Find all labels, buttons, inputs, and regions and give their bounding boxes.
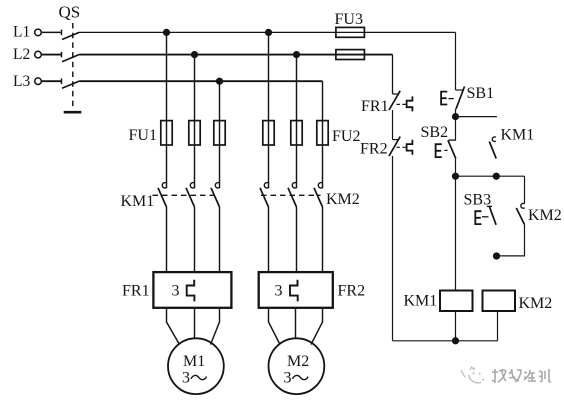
junction dot L2-B — [294, 52, 300, 58]
svg-text:QS: QS — [59, 3, 81, 22]
fuse FU2 b — [291, 121, 302, 145]
svg-text:3: 3 — [284, 370, 292, 387]
motor M1 circle — [168, 338, 224, 394]
svg-text:KM1: KM1 — [501, 127, 535, 144]
svg-text:FR1: FR1 — [361, 98, 389, 115]
thermal contact FR2 — [389, 137, 412, 156]
wire FR2 down to bottom rail — [392, 156, 394, 341]
switch QS pole 3 tick — [61, 78, 63, 84]
svg-text:L3: L3 — [13, 73, 30, 90]
switch QS linkage dashed — [72, 23, 74, 110]
contactor KM1 linkage dashed — [153, 194, 219, 196]
svg-text:KM1: KM1 — [121, 193, 155, 210]
wire branch B phase3 lower — [322, 207, 324, 272]
node L3 terminal — [35, 78, 42, 85]
junction dot L1-B — [266, 30, 272, 36]
svg-text:FR2: FR2 — [338, 282, 366, 299]
thermal relay FR1 heater element — [187, 280, 195, 302]
fuse FU1 b — [189, 121, 200, 145]
wire L2 left segment — [42, 54, 62, 56]
wire FR1 to M1 right — [211, 308, 220, 345]
junction dot KM2 branch bottom — [494, 253, 500, 259]
svg-text:L2: L2 — [13, 46, 30, 63]
coil KM2 — [483, 291, 516, 312]
junction dot L2-A — [192, 52, 198, 58]
wire L3 bus — [80, 80, 323, 82]
switch QS pole 2 blade — [62, 54, 80, 61]
thermal relay FR2 box — [259, 272, 333, 308]
wire KM1 coil to bottom — [455, 311, 457, 341]
wire node to KM1 coil — [455, 176, 457, 290]
wire FR1 to FR2 — [392, 110, 394, 140]
svg-text:KM1: KM1 — [404, 293, 438, 310]
fuse FU1 c — [214, 121, 225, 145]
wire branch A phase2 upper — [194, 55, 196, 188]
contactor KM2 main contact 1 — [260, 183, 269, 207]
wire branch A phase3 upper — [219, 81, 221, 188]
node L2 terminal — [35, 51, 42, 58]
contactor KM2 main contact 2 — [288, 183, 297, 207]
fuse FU3 upper — [336, 27, 365, 37]
contactor KM2 linkage dashed — [261, 194, 321, 196]
junction dot SB1 bottom — [453, 114, 459, 120]
svg-text:M1: M1 — [183, 353, 205, 370]
pushbutton SB2 NO contact — [436, 117, 456, 159]
wire branch B phase1 upper — [268, 32, 270, 188]
wire branch A phase1 upper — [166, 32, 168, 188]
switch QS pole 3 blade — [62, 81, 80, 88]
contactor KM2 main contact 3 — [314, 183, 323, 207]
svg-text:KM2: KM2 — [528, 207, 562, 224]
svg-text:3: 3 — [172, 283, 180, 300]
node L1 terminal — [35, 29, 42, 36]
wire node row y176 — [456, 175, 525, 177]
wire FR1 to M1 middle — [194, 308, 196, 339]
contactor KM2 aux contact branch — [497, 176, 525, 256]
coil KM1 — [440, 291, 473, 312]
wire L3 left segment — [42, 80, 62, 82]
contactor KM1 main contact 3 — [211, 183, 220, 207]
wire branch B phase1 lower — [268, 207, 270, 272]
wire FR2 to M2 left — [269, 308, 281, 345]
svg-text:FU2: FU2 — [332, 128, 360, 145]
junction dot bottom — [453, 338, 459, 344]
switch QS pole 1 blade — [62, 32, 80, 39]
contactor KM1 aux contact — [489, 137, 496, 159]
svg-text:KM2: KM2 — [326, 191, 360, 208]
svg-text:SB3: SB3 — [464, 192, 492, 209]
thermal contact FR1 — [389, 91, 412, 112]
wire FR2 to M2 middle — [295, 308, 297, 339]
wire branch A phase2 lower — [194, 207, 196, 272]
fuse FU2 c — [317, 121, 328, 145]
wire branch B phase2 upper — [296, 55, 298, 188]
svg-text:FR2: FR2 — [360, 141, 388, 158]
switch QS pole 2 tick — [61, 52, 63, 58]
wire L2 bus — [80, 54, 393, 56]
fuse FU1 a — [161, 121, 172, 145]
watermark text 技成培训 — [492, 369, 551, 382]
junction dot L1-A — [164, 30, 170, 36]
wire branch A phase1 lower — [166, 207, 168, 272]
junction dot SB2 bottom — [453, 173, 459, 179]
svg-text:SB1: SB1 — [467, 85, 495, 102]
junction dot SB3 top — [493, 173, 499, 179]
switch QS handle bar — [64, 111, 82, 114]
wire KM2 coil to bottom — [497, 311, 499, 341]
motor M2 circle — [269, 338, 325, 394]
wire FR1 to M1 left — [167, 308, 180, 345]
svg-text:FU3: FU3 — [335, 11, 363, 28]
wire FR2 to M2 right — [311, 308, 323, 345]
wire branch B phase3 upper — [322, 81, 324, 188]
svg-text:3: 3 — [182, 370, 190, 387]
svg-text:KM2: KM2 — [519, 295, 553, 312]
pushbutton SB3 NO contact — [475, 206, 496, 225]
wire bottom rail — [393, 340, 498, 342]
pushbutton SB1 NC contact — [441, 87, 464, 110]
contactor KM1 main contact 1 — [158, 183, 167, 207]
wire SB2 to node — [455, 159, 457, 177]
wire branch A phase3 lower — [219, 207, 221, 272]
svg-text:3: 3 — [275, 283, 283, 300]
fuse FU2 a — [263, 121, 274, 145]
svg-text:M2: M2 — [287, 353, 309, 370]
contactor KM1 main contact 2 — [186, 183, 195, 207]
junction dot L3-A — [217, 78, 223, 84]
wire control right drop — [455, 32, 457, 90]
svg-text:L1: L1 — [13, 24, 30, 41]
fuse FU3 lower — [336, 50, 365, 60]
thermal relay FR1 box — [153, 272, 231, 308]
wire L1 bus — [80, 31, 456, 33]
watermark logo — [461, 367, 484, 383]
svg-text:SB2: SB2 — [421, 124, 449, 141]
svg-text:FU1: FU1 — [129, 127, 157, 144]
wire node to KM1 aux branch — [456, 116, 497, 118]
wire control left drop — [392, 55, 394, 94]
switch QS pole 1 tick — [61, 30, 63, 36]
wire L1 left segment — [42, 31, 62, 33]
thermal relay FR2 heater element — [290, 280, 298, 302]
svg-text:FR1: FR1 — [122, 282, 150, 299]
wire branch B phase2 lower — [296, 207, 298, 272]
wire SB1 to node — [455, 109, 457, 117]
